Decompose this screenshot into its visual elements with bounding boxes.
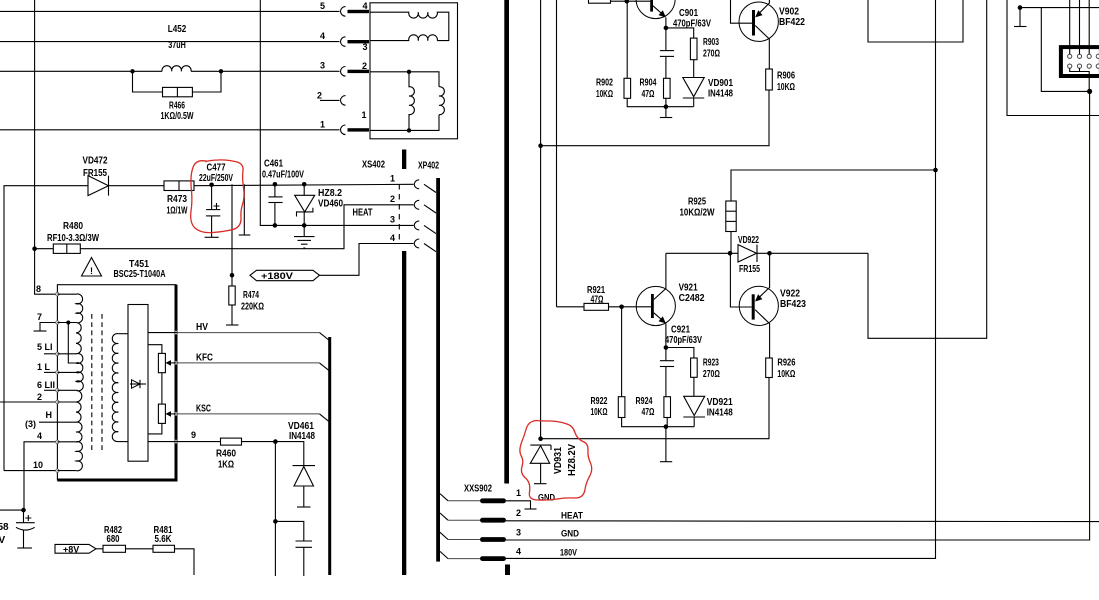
T451 secondary bottom wire [118,441,128,443]
svg-text:VD901: VD901 [708,78,733,89]
node dot heater ground [1018,5,1023,10]
CRT socket pins top row [1068,54,1099,68]
svg-text:VD460: VD460 [318,199,343,210]
resistor R906 [766,69,773,90]
screen pot wiper KSC [167,413,176,415]
svg-text:9: 9 [191,430,196,440]
svg-text:680: 680 [107,534,120,545]
wire R460 to VD461 [242,442,304,466]
svg-text:R460: R460 [216,449,236,460]
svg-text:KSC: KSC [196,404,211,415]
focus pot wiper KFC [167,362,176,364]
svg-text:+180V: +180V [261,271,293,281]
red scribble around VD931 [520,421,592,501]
resistor R480 wire [35,248,54,250]
zener diode VD460 [303,184,305,195]
svg-text:R925: R925 [688,197,706,208]
wire R482 to R481 [126,548,154,550]
node dot stage1 emitter rail [538,143,543,148]
HV KFC KSC slant joints to bus [320,333,331,341]
wire R473 to pin1 line [194,184,414,185]
resistor R903 [690,38,697,60]
svg-text:R924: R924 [636,396,653,407]
yoke horizontal coil lower [370,35,437,41]
svg-text:180V: 180V [560,548,577,558]
yoke vertical coil right [439,87,444,115]
XXS902 pin wires grey [448,500,480,502]
svg-text:4: 4 [320,31,325,41]
node dot VD460 top [302,182,307,187]
svg-text:L452: L452 [168,24,187,35]
diode VD472 [88,176,109,196]
svg-text:1: 1 [320,120,325,130]
svg-text:1KΩ/0.5W: 1KΩ/0.5W [161,111,194,122]
capacitor C901 [665,28,667,51]
VD922 cathode wire [757,252,868,254]
XP402 contact stubs [424,184,436,192]
XS402 upper contact arcs pins 5,4,3,2,1 [341,7,346,17]
XXS902 pin3 GND wire [506,91,1090,540]
resistor R921 [584,303,609,310]
transistor V902 [739,2,778,41]
svg-text:BF423: BF423 [780,299,806,310]
XS402 thick bar lower segment [402,251,406,575]
wire R481 down [175,549,195,575]
svg-text:R902: R902 [596,78,613,89]
svg-text:VD922: VD922 [738,235,759,246]
svg-text:3: 3 [390,215,395,225]
svg-text:V921: V921 [679,283,698,294]
svg-text:XS402: XS402 [362,160,385,171]
XS402 mid contact arcs [414,180,419,189]
node dot V901 base [625,0,630,4]
node dot VD460 bottom [302,223,307,228]
HV output wire [148,332,177,334]
svg-text:+8V: +8V [63,545,79,555]
svg-text:R906: R906 [777,71,795,82]
svg-text:2: 2 [317,91,322,101]
stage2 ground node and stub [664,424,669,429]
svg-text:R904: R904 [640,78,657,89]
svg-text:1 L: 1 L [37,362,51,372]
svg-text:R466: R466 [169,101,185,112]
transformer T451 box [57,285,176,480]
wire R923 to VD921 [693,377,695,396]
resistor R481 [153,545,175,552]
wire emitter node to R903 [666,28,694,38]
svg-text:IN4148: IN4148 [707,408,733,419]
svg-text:GND: GND [561,529,579,539]
wire C921 node to R923 [666,348,694,359]
T451 primary winding lower [57,402,82,471]
svg-text:VD921: VD921 [707,397,733,408]
svg-text:3: 3 [320,61,325,71]
T451 core dashed lines [91,314,93,453]
warning triangle [82,258,102,277]
node dot R480 junction [32,246,37,251]
+8V flag [55,544,96,553]
XP402 thick bar [436,178,440,562]
capacitor C921 [665,348,667,361]
transistor V922 [739,286,778,325]
svg-text:HZ8.2V: HZ8.2V [567,444,578,476]
svg-text:37uH: 37uH [168,40,186,51]
svg-text:RF10-3.3Ω/3W: RF10-3.3Ω/3W [47,233,99,244]
svg-text:10KΩ: 10KΩ [777,369,795,380]
svg-text:2: 2 [390,194,395,204]
svg-text:5 LI: 5 LI [37,342,53,352]
resistor R482 [103,545,126,552]
wire left to XS402 pin5 [0,10,340,12]
inductor L452 [162,66,191,72]
KSC output wire [176,413,320,415]
vertical rail to CRT grid [1007,0,1099,116]
resistor R921 wire [557,306,585,308]
svg-text:6 LII: 6 LII [37,380,55,390]
svg-text:C477: C477 [207,163,226,174]
svg-text:7: 7 [37,312,42,322]
svg-text:10KΩ: 10KΩ [596,89,613,100]
wire pin3 ground line [260,0,413,225]
wire +8V to R482 [96,548,103,550]
capacitor C458 node wire from left edge [0,509,24,511]
ground symbol below VD460 [303,225,305,236]
HV bus thick vertical [328,337,331,575]
CRT shield thick bar lower segment [505,565,510,576]
resistor R473 [164,181,194,191]
svg-text:270Ω: 270Ω [703,49,720,60]
node dot right of L452 [219,69,223,73]
capacitor C477 [211,185,213,210]
yoke node dot top [407,70,411,74]
yoke vertical coil left [409,72,414,131]
node dot 180V rail [933,168,938,173]
diode VD901 [683,78,704,97]
svg-text:10KΩ: 10KΩ [591,407,608,418]
resistor R901 partial top edge [589,0,611,3]
svg-text:FR155: FR155 [739,264,760,275]
svg-text:BF422: BF422 [779,17,805,28]
CRT socket pin wires up [1069,0,1071,54]
svg-text:R926: R926 [777,358,795,369]
svg-text:R903: R903 [703,37,719,48]
resistor R902 with wires [626,1,628,78]
node dot V901 emitter [664,26,669,31]
svg-text:R474: R474 [243,290,259,301]
svg-text:4: 4 [516,547,521,557]
svg-text:IN4148: IN4148 [289,431,315,442]
XS402 pin2 stub [320,99,340,101]
XS402 upper thick contact bars [348,10,370,13]
diode VD922 [738,245,757,262]
svg-text:R473: R473 [167,194,187,205]
svg-text:GND: GND [538,493,555,503]
deflection yoke box [370,3,458,139]
resistor R474 [231,275,233,286]
node dot C921 [664,345,669,350]
svg-text:58: 58 [0,522,9,533]
vertical wire from top edge to R480 and T451 pin8 [35,0,58,294]
svg-text:C461: C461 [264,159,283,170]
node dot C461 top [273,182,278,187]
capacitor below VD461 [275,521,303,541]
svg-text:XP402: XP402 [418,161,439,172]
svg-text:8: 8 [36,284,41,294]
node dot VD461 branch [273,439,278,444]
CRT socket [1061,47,1099,76]
svg-text:1: 1 [390,174,395,184]
node dot lower cap branch [273,519,278,524]
node dot VD931 [538,436,543,441]
svg-text:270Ω: 270Ω [703,369,720,380]
T451 pin circles [56,293,178,473]
yoke vertical coil top wire [370,72,439,87]
svg-text:2: 2 [362,61,367,71]
transistor V901 [636,0,675,19]
node dot C477 [209,183,214,188]
svg-text:R922: R922 [591,396,608,407]
svg-text:R923: R923 [703,358,719,369]
VD922 anode wire [666,252,738,254]
T451 HV rectifier block [128,305,148,462]
capacitor C461 [274,184,276,197]
svg-text:KFC: KFC [196,353,213,364]
svg-text:HEAT: HEAT [561,511,583,521]
resistor R904 [664,78,671,98]
node dot C461 bottom [273,223,278,228]
top right box [868,0,963,42]
svg-text:5.6K: 5.6K [155,534,173,545]
svg-text:22uF/250V: 22uF/250V [199,173,233,184]
wire R480 to XS402 pin2 HEAT [80,205,413,249]
red scribble around C477 [191,160,244,233]
CRT shield thick bar [504,0,509,484]
T451 secondary winding [112,334,118,442]
svg-text:IN4148: IN4148 [708,89,733,100]
wire video out to CRT [868,0,987,338]
zener diode VD931 [530,444,551,446]
T451 internal tap wire from pin7 [68,323,76,364]
XS402 dashed connector line [398,184,400,241]
node dot +180V [230,273,235,278]
svg-text:C901: C901 [679,8,698,19]
svg-text:220KΩ: 220KΩ [241,302,264,313]
diode VD472 wire from left rail [4,186,88,471]
svg-text:V922: V922 [780,289,800,300]
C477 plus sign [214,203,220,209]
node dot V921 base [619,305,624,310]
CRT heater ground wire [1020,7,1099,9]
stage2 bottom rail [541,378,769,439]
svg-text:1KΩ: 1KΩ [218,460,234,471]
yoke horizontal coil upper [370,12,449,40]
svg-text:HZ8.2: HZ8.2 [318,188,342,199]
node dot VD922 anode [728,251,733,256]
T451 focus pot upper [158,353,165,372]
resistor R466 parallel branch wires [133,71,163,92]
svg-text:1: 1 [362,110,367,120]
svg-text:3: 3 [363,42,368,52]
svg-text:10KΩ/2W: 10KΩ/2W [680,208,715,219]
svg-text:470pF/63V: 470pF/63V [665,335,702,346]
svg-text:5: 5 [320,1,325,11]
diode VD461 [293,465,316,467]
svg-text:C921: C921 [671,325,690,336]
wire 180V rail to R925 [731,170,936,201]
svg-text:(3): (3) [25,419,36,429]
svg-text:4: 4 [363,1,368,11]
svg-text:4: 4 [390,233,395,243]
node dot left of L452 [130,69,134,73]
resistor R922 with wires [621,307,623,397]
wire R901 to V901 base [611,0,651,2]
wire branch to +180V node [231,184,233,275]
node dot CRT cathode join [1087,89,1092,94]
ground stub bar right of C477 [243,184,245,235]
+180V flag [250,270,320,280]
svg-text:HEAT: HEAT [353,208,373,219]
wire XS402 pin4 to +180V [320,244,414,276]
svg-text:0.47uF/100V: 0.47uF/100V [262,170,304,181]
svg-text:R480: R480 [63,221,83,232]
XXS902 pin1 GND stub [506,501,531,509]
svg-text:3: 3 [516,528,521,538]
svg-text:XXS902: XXS902 [464,484,492,495]
diode VD921 [684,396,705,415]
yoke node dot bottom [407,128,411,132]
ground stub top right [1019,8,1021,27]
wire left to XS402 pin3 with L452 [0,70,162,72]
KFC output wire [176,362,320,364]
svg-text:47Ω: 47Ω [642,89,655,100]
XXS902 pin2 HEAT wire [506,520,1099,523]
svg-text:C2482: C2482 [679,293,705,304]
wire left to XS402 pin4 [0,41,340,43]
svg-text:FR155: FR155 [83,168,107,179]
XS402 thick bar upper segment [402,150,406,170]
yoke vertical coil bottom wire [370,115,439,131]
svg-text:HV: HV [196,322,208,333]
XXS902 thick contact bars [480,498,506,503]
resistor R480 [53,244,80,253]
vertical rail to VD931 [540,0,542,439]
wire R903 to VD901 [693,60,695,78]
T451 secondary top wire [118,333,128,335]
svg-text:4: 4 [37,431,42,441]
svg-text:VD931: VD931 [553,447,564,474]
stage1 ground node and stub [664,104,669,109]
CRT socket bottom pin links [1070,68,1090,91]
svg-text:2: 2 [37,392,42,402]
T451 primary winding upper [57,294,83,402]
resistor R925 [726,201,736,232]
svg-text:V902: V902 [779,7,799,18]
wire VD472 to R473 [109,185,165,187]
svg-text:V: V [0,535,6,546]
HV block internal diode [130,383,146,385]
svg-text:10: 10 [33,460,43,470]
svg-text:1Ω/1W: 1Ω/1W [167,206,188,217]
resistor R923 [691,358,698,377]
resistor R926 [766,358,773,378]
svg-text:10KΩ: 10KΩ [777,82,795,93]
wire R921 to V921 base [609,306,652,308]
XXS902 contact stubs from bar [440,494,448,501]
XXS902 pin4 180V wire [506,0,936,558]
capacitor C458 [23,510,25,523]
wire left to XS402 pin1 [0,129,340,131]
T451 screen pot lower [158,404,165,423]
resistor R466 [163,87,193,96]
svg-text:VD472: VD472 [83,156,108,167]
resistor R460 [221,438,242,445]
wire to CRT cathode join [1041,8,1089,92]
svg-text:BSC25-T1040A: BSC25-T1040A [114,269,166,280]
vertical rail to R921 [556,0,558,307]
svg-text:47Ω: 47Ω [642,407,655,418]
wire R925 to VD922 line [730,232,732,254]
node dot VD922 cathode [767,251,772,256]
resistor R924 [664,397,671,418]
svg-text:2: 2 [516,508,521,518]
node dot C458 [21,508,26,513]
transistor V921 [636,286,675,325]
svg-text:!: ! [90,266,93,276]
svg-text:H: H [46,410,53,420]
stage1 bottom rail [541,90,769,146]
wire VD461 node down to C459 [274,442,276,576]
C458 plus sign [25,515,31,521]
svg-text:47Ω: 47Ω [591,295,604,306]
svg-text:1: 1 [516,488,521,498]
